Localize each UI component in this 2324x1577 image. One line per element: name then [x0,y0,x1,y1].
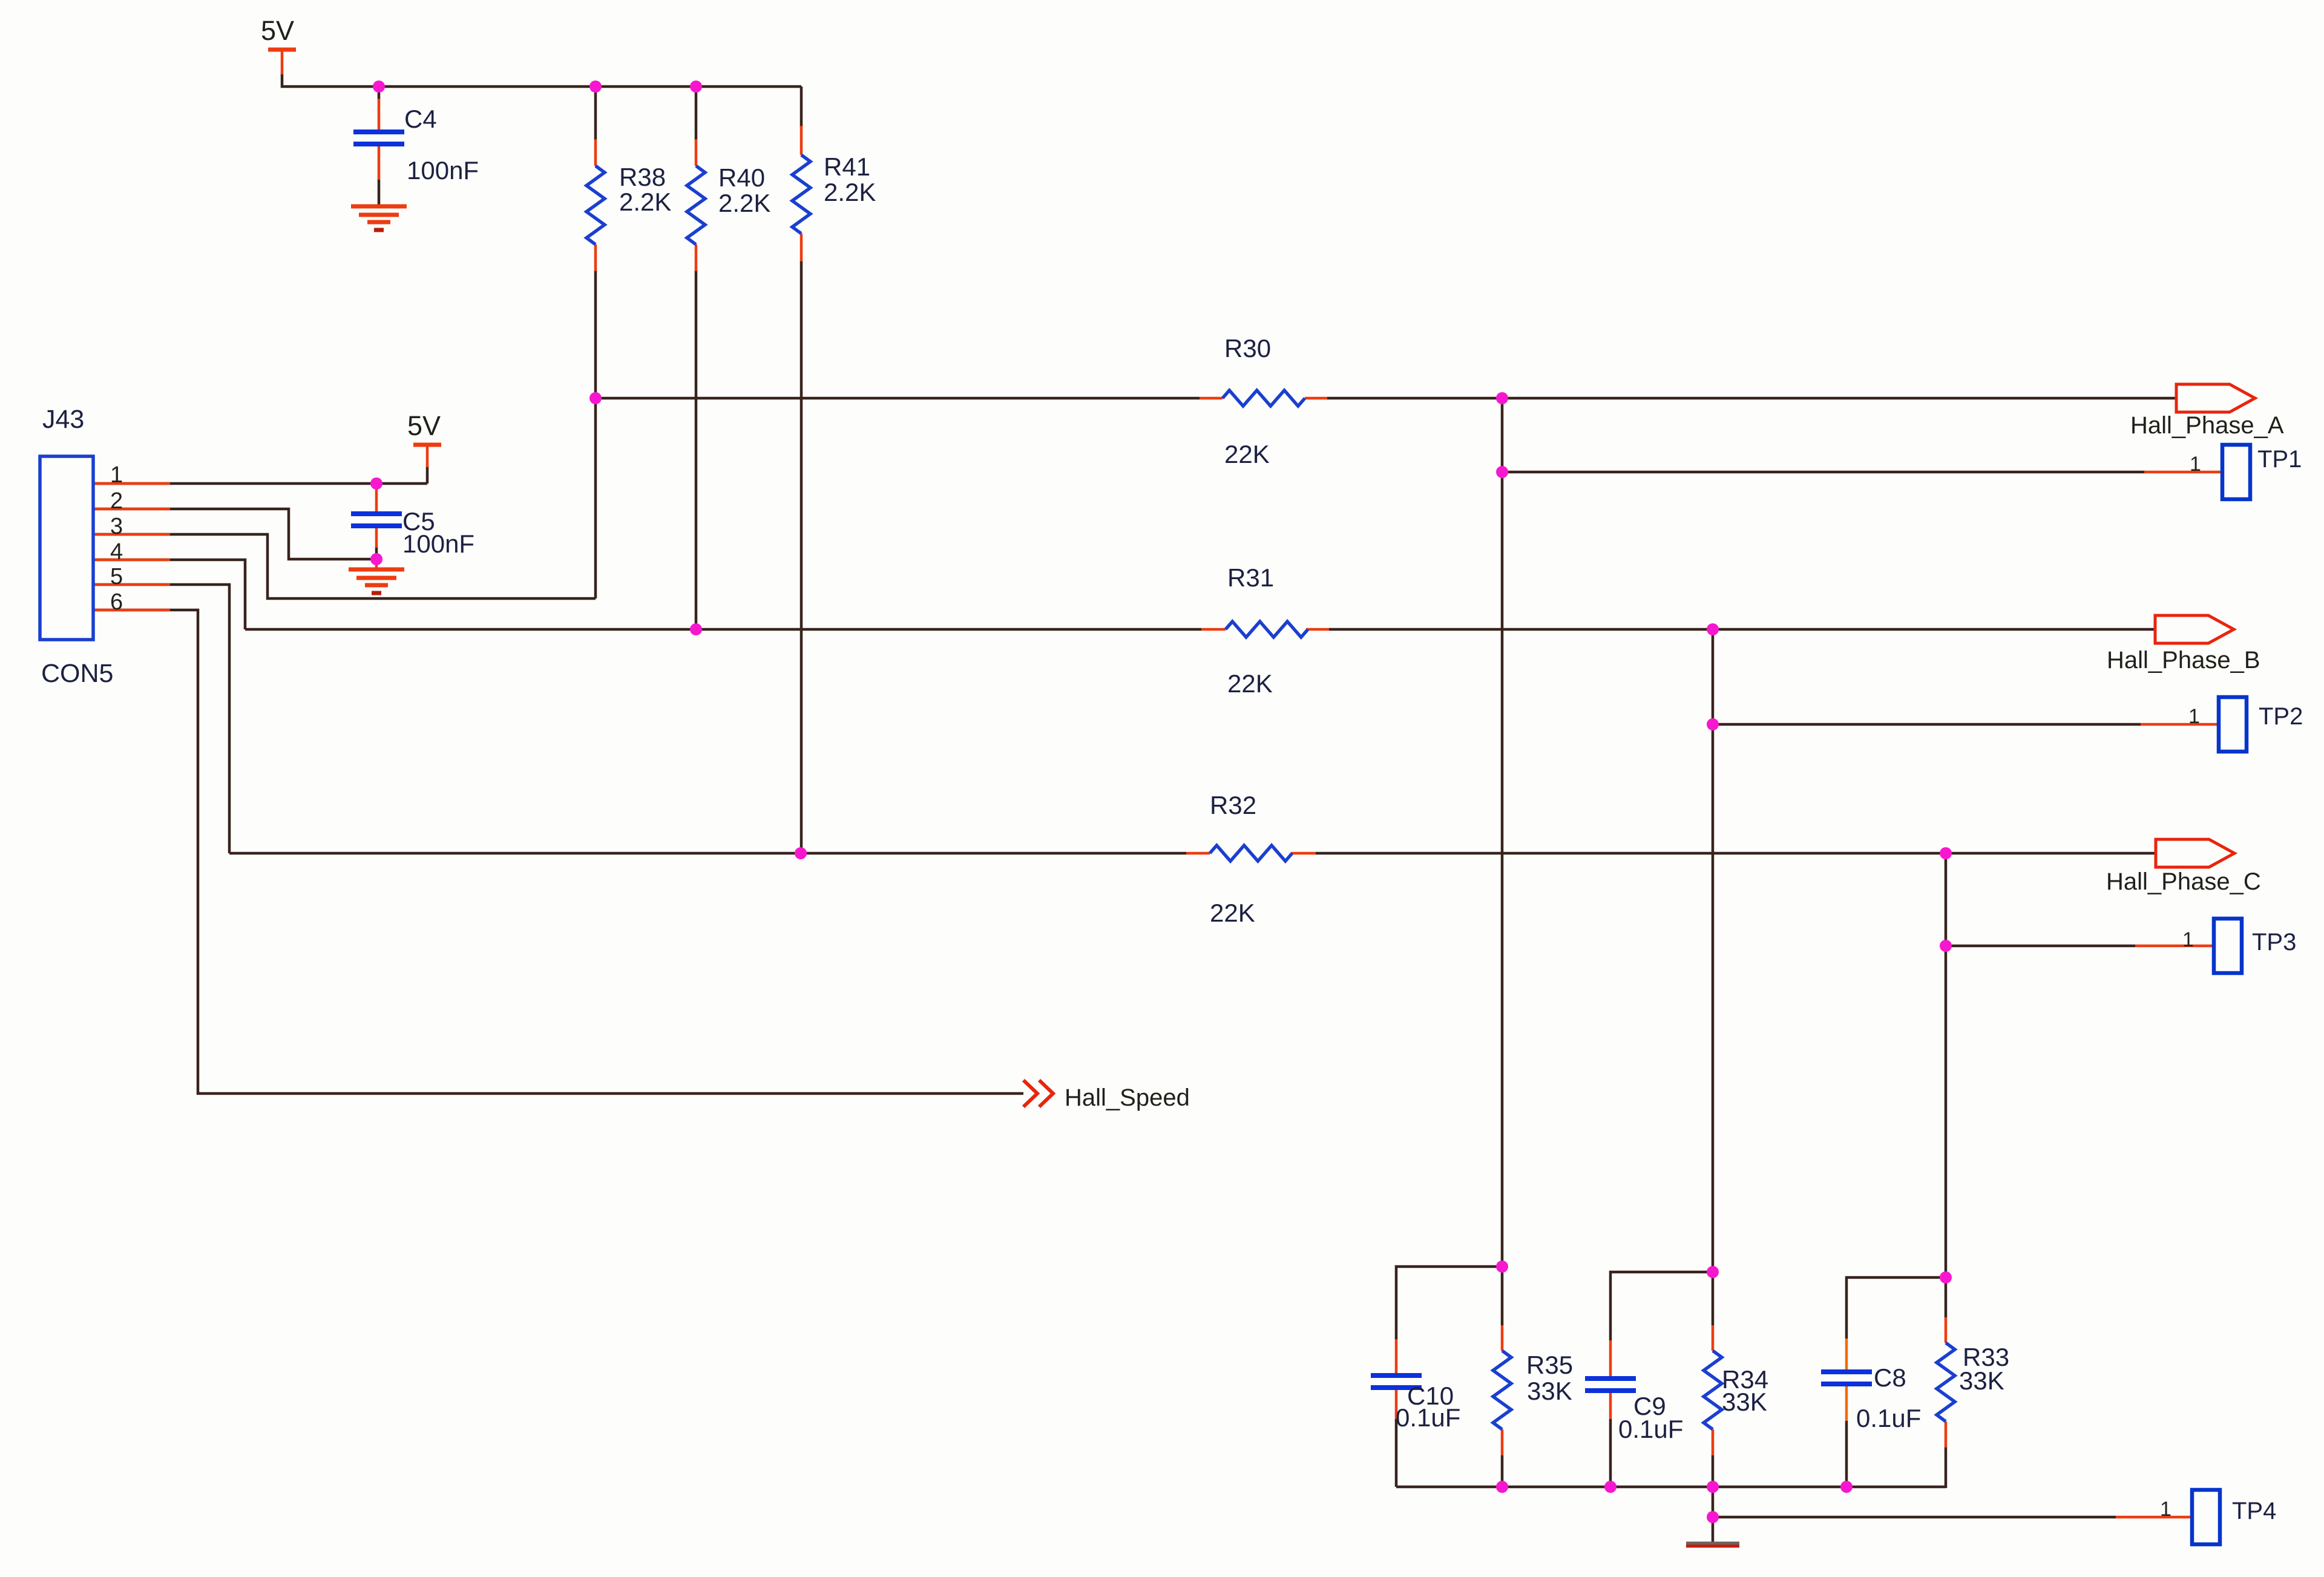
svg-text:R35: R35 [1526,1351,1573,1379]
svg-text:1: 1 [2182,928,2194,951]
svg-text:TP1: TP1 [2257,446,2302,473]
svg-text:33K: 33K [1527,1377,1572,1405]
svg-text:0.1uF: 0.1uF [1396,1403,1460,1432]
svg-text:J43: J43 [42,405,84,434]
svg-text:1: 1 [2160,1498,2171,1521]
svg-text:C4: C4 [404,105,437,133]
svg-text:1: 1 [2188,705,2200,728]
svg-text:TP2: TP2 [2259,703,2303,730]
svg-text:CON5: CON5 [41,659,113,688]
svg-text:R30: R30 [1224,334,1271,362]
svg-text:C8: C8 [1874,1363,1906,1392]
svg-text:1: 1 [2190,453,2201,476]
svg-text:R41: R41 [824,152,870,181]
svg-text:Hall_Speed: Hall_Speed [1065,1084,1190,1111]
svg-text:33K: 33K [1959,1366,2004,1395]
svg-text:22K: 22K [1227,669,1273,698]
svg-text:TP3: TP3 [2252,929,2296,956]
svg-text:6: 6 [110,589,123,615]
svg-text:Hall_Phase_C: Hall_Phase_C [2106,868,2261,895]
svg-text:R40: R40 [718,163,765,192]
svg-text:1: 1 [110,462,123,488]
svg-text:22K: 22K [1224,440,1270,468]
svg-text:2: 2 [110,488,123,514]
svg-text:Hall_Phase_B: Hall_Phase_B [2107,647,2260,674]
svg-text:Hall_Phase_A: Hall_Phase_A [2130,412,2284,439]
svg-text:0.1uF: 0.1uF [1618,1415,1683,1443]
svg-text:2.2K: 2.2K [619,188,671,216]
svg-text:TP4: TP4 [2232,1498,2276,1524]
svg-text:R31: R31 [1227,563,1274,592]
svg-text:100nF: 100nF [407,156,479,185]
svg-text:5: 5 [110,564,123,589]
svg-text:100nF: 100nF [402,529,474,558]
svg-text:R32: R32 [1210,791,1256,819]
svg-text:0.1uF: 0.1uF [1856,1404,1921,1432]
svg-text:5V: 5V [407,410,441,441]
svg-text:4: 4 [110,539,123,565]
svg-text:3: 3 [110,514,123,539]
svg-text:2.2K: 2.2K [824,178,876,206]
svg-text:5V: 5V [261,15,294,46]
svg-text:2.2K: 2.2K [718,189,770,217]
svg-text:22K: 22K [1210,899,1255,927]
svg-text:33K: 33K [1722,1388,1767,1416]
svg-text:R38: R38 [619,163,666,191]
